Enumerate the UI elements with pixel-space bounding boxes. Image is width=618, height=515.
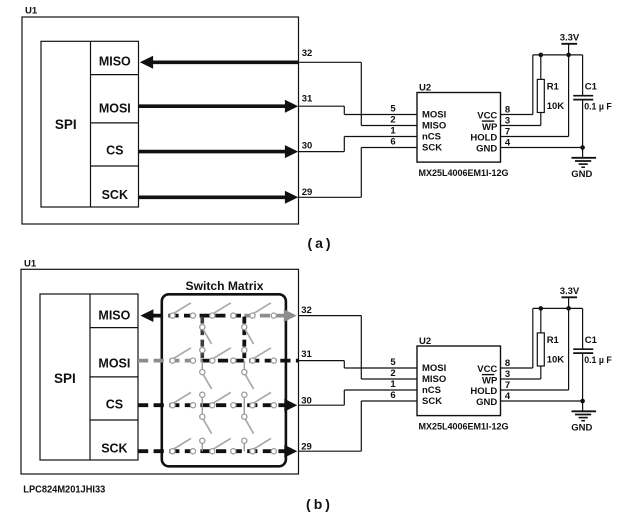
svg-text:SPI: SPI (54, 371, 76, 386)
SPI block inside U1 (a) (41, 41, 139, 207)
svg-text:U2: U2 (419, 336, 431, 347)
wire net 30 to U2 nCS pin1 (b) (299, 390, 345, 405)
wire net 29 to U2 SCK pin6 (a) (299, 148, 362, 198)
switch contacts row1 (b) (170, 313, 277, 318)
wire WP pin3 to R1 bottom (a) (501, 113, 541, 126)
svg-text:MOSI: MOSI (422, 110, 446, 121)
svg-text:8: 8 (505, 104, 510, 115)
switch lever row4 sw2 (b) (214, 438, 231, 449)
svg-text:VCC: VCC (477, 364, 497, 375)
power 3.3V symbol (b) (560, 286, 580, 308)
wire 3.3V rail (a) (533, 54, 583, 56)
switch lever vertical col1 rows2-3 (b) (203, 375, 211, 390)
svg-text:3: 3 (505, 115, 510, 126)
U2 right pin labels (a) (470, 110, 498, 154)
svg-text:MISO: MISO (99, 55, 131, 69)
svg-text:WP: WP (482, 122, 498, 133)
svg-text:5: 5 (390, 357, 396, 368)
switch contacts row3 (b) (170, 403, 277, 408)
U2 left pin numbers 5 2 1 6 (b) (390, 357, 396, 401)
wire VCC pin8 to rail (a) (501, 55, 533, 115)
wire HOLD pin7 to rail (b) (501, 308, 569, 390)
svg-text:7: 7 (505, 380, 510, 391)
resistor R1 (b) (537, 308, 564, 366)
svg-text:32: 32 (301, 305, 312, 316)
svg-text:R1: R1 (547, 335, 560, 346)
svg-text:6: 6 (390, 390, 395, 401)
svg-text:CS: CS (106, 143, 123, 157)
switch contacts row4 (b) (170, 449, 277, 454)
svg-text:SCK: SCK (101, 442, 127, 456)
wire net 32 to U2 MISO pin2 (b) (299, 316, 362, 379)
switch contacts vertical col1 rows2-3 (b) (200, 370, 205, 398)
switch matrix box (b) (162, 279, 286, 466)
U2 right pin labels (b) (470, 364, 498, 408)
wire MOSI row dashed black to edge (b) (202, 359, 298, 363)
node junction R1-rail (a) (539, 53, 544, 58)
svg-text:CS: CS (106, 398, 123, 412)
svg-text:MISO: MISO (98, 308, 130, 322)
svg-text:SCK: SCK (422, 143, 442, 154)
U2 left pin labels (a) (422, 110, 446, 154)
node junction 3.3V-rail (b) (566, 306, 571, 311)
svg-text:nCS: nCS (422, 132, 441, 143)
wire MISO row dashed black (b) (140, 309, 244, 322)
svg-text:(a): (a) (307, 235, 333, 251)
svg-text:10K: 10K (547, 101, 565, 112)
switch lever row4 sw1 (b) (174, 438, 191, 449)
svg-text:3: 3 (505, 369, 510, 380)
U2 left pin stubs (b) (344, 368, 417, 401)
capacitor C1 (b) (573, 308, 612, 401)
svg-text:29: 29 (302, 187, 313, 198)
switch lever row1 sw3 (b) (254, 303, 271, 314)
SPI block inside U1 (b) (40, 294, 138, 460)
SPI pin labels (a) (99, 55, 131, 202)
svg-text:1: 1 (390, 126, 396, 137)
switch contacts vertical col2 rows1-2 (b) (242, 325, 247, 353)
wire MISO thick arrow into SPI (a) (140, 56, 299, 69)
switch lever vertical col1 rows1-2 (b) (203, 330, 211, 345)
wire net 31 to U2 MOSI pin5 (a) (299, 106, 345, 114)
svg-text:VCC: VCC (477, 110, 497, 121)
svg-text:GND: GND (476, 397, 497, 408)
wire WP pin3 to R1 bottom (b) (501, 366, 541, 379)
switch contacts vertical col1 rows1-2 (b) (200, 325, 205, 353)
switch contacts vertical col2 rows3-4 (b) (242, 414, 247, 443)
switch contacts vertical col1 rows3-4 (b) (200, 414, 205, 443)
svg-text:4: 4 (505, 391, 511, 402)
svg-text:SCK: SCK (422, 396, 442, 407)
wire vertical cross-connect col2 rows1-2 black dashed (b) (242, 317, 246, 360)
svg-text:LPC824M201JHI33: LPC824M201JHI33 (23, 484, 105, 496)
power 3.3V symbol (a) (560, 33, 580, 55)
svg-text:MOSI: MOSI (99, 101, 131, 115)
svg-text:U2: U2 (419, 83, 431, 94)
svg-text:U1: U1 (24, 258, 37, 269)
wire SCK row dashed black + arrow (b) (138, 445, 297, 458)
U2 left pin numbers 5 2 1 6 (a) (390, 104, 396, 148)
resistor R1 (a) (537, 55, 564, 113)
svg-text:3.3V: 3.3V (560, 33, 580, 44)
svg-text:GND: GND (476, 143, 497, 154)
svg-text:7: 7 (505, 126, 510, 137)
wire MOSI row dashed gray (b) (138, 359, 202, 363)
wire MOSI thick arrow out (a) (139, 100, 299, 113)
switch contacts row2 (b) (170, 358, 277, 363)
wire GND pin4 net (a) (501, 148, 583, 158)
wire net 32 to U2 MISO pin2 (a) (299, 62, 362, 125)
svg-text:C1: C1 (585, 82, 598, 93)
switch lever row4 sw3 (b) (254, 438, 271, 449)
svg-text:C1: C1 (585, 335, 598, 346)
svg-text:U1: U1 (25, 6, 38, 17)
svg-text:nCS: nCS (422, 385, 441, 396)
switch lever row3 sw1 (b) (174, 392, 191, 403)
svg-text:2: 2 (390, 368, 395, 379)
svg-text:SCK: SCK (102, 188, 128, 202)
switch lever row2 sw3 (b) (254, 348, 271, 359)
node junction pin4-C1-GND (b) (580, 399, 585, 404)
switch vertical col1 rows3-4 stems (b) (201, 405, 203, 451)
wire CS thick arrow out (a) (139, 145, 299, 158)
wire VCC pin8 to rail (b) (501, 308, 533, 368)
switch lever row2 sw1 (b) (174, 348, 191, 359)
svg-text:HOLD: HOLD (470, 386, 497, 397)
switch contacts vertical col2 rows2-3 (b) (242, 370, 247, 398)
svg-text:6: 6 (390, 137, 395, 148)
wire vertical cross-connect col1 rows1-2 dark dashed (b) (201, 317, 205, 360)
node junction pin4-C1-GND (a) (580, 145, 585, 150)
svg-text:31: 31 (302, 94, 313, 105)
svg-text:MX25L4006EM1I-12G: MX25L4006EM1I-12G (419, 168, 509, 178)
ground symbol (b) (571, 411, 596, 433)
switch vertical col1 rows2-3 stems (b) (201, 361, 203, 406)
wire CS row dashed black + arrow (b) (138, 399, 297, 412)
svg-text:2: 2 (390, 115, 395, 126)
svg-text:MISO: MISO (422, 121, 446, 132)
svg-text:32: 32 (302, 48, 313, 59)
svg-text:MOSI: MOSI (422, 363, 446, 374)
svg-text:4: 4 (505, 137, 511, 148)
chip U1 outline (b) (21, 258, 299, 474)
svg-text:1: 1 (390, 379, 396, 390)
wire 3.3V rail (b) (533, 307, 583, 309)
capacitor C1 (a) (573, 55, 612, 148)
svg-text:MISO: MISO (422, 374, 446, 385)
svg-text:31: 31 (301, 349, 312, 360)
op IC U2 flash MX25L4006 (a) (417, 83, 501, 163)
switch lever row1 sw1 (b) (174, 303, 191, 314)
svg-text:WP: WP (482, 375, 498, 386)
wire SCK thick arrow out (a) (139, 191, 299, 204)
switch lever row3 sw2 (b) (214, 392, 231, 403)
chip U1 outline (a) (22, 6, 299, 225)
svg-text:(b): (b) (306, 496, 333, 512)
node junction 3.3V-rail (a) (566, 53, 571, 58)
svg-text:10K: 10K (547, 355, 565, 366)
wire net 29 to U2 SCK pin6 (b) (299, 401, 362, 451)
switch lever vertical col2 rows3-4 (b) (245, 419, 253, 434)
wire net 30 to U2 nCS pin1 (a) (299, 137, 345, 152)
svg-text:SPI: SPI (55, 117, 77, 132)
svg-text:0.1 µ F: 0.1 µ F (584, 355, 612, 365)
switch vertical col2 rows2-3 stems (b) (243, 361, 245, 406)
node junction R1-rail (b) (539, 306, 544, 311)
op IC U2 flash MX25L4006 (b) (417, 336, 501, 416)
svg-text:5: 5 (390, 104, 396, 115)
svg-text:30: 30 (302, 140, 313, 151)
ground symbol (a) (571, 158, 596, 180)
switch vertical col2 rows3-4 stems (b) (243, 405, 245, 451)
switch lever row1 sw2 (b) (214, 303, 231, 314)
svg-text:Switch Matrix: Switch Matrix (186, 279, 264, 293)
switch lever row2 sw2 (b) (214, 348, 231, 359)
svg-text:HOLD: HOLD (470, 132, 497, 143)
switch lever vertical col2 rows1-2 (b) (245, 330, 253, 345)
U2 right pin numbers 8 3 7 4 (a) (505, 104, 511, 148)
svg-text:R1: R1 (547, 82, 560, 93)
switch lever vertical col2 rows2-3 (b) (245, 375, 253, 390)
switch lever row3 sw3 (b) (254, 392, 271, 403)
U2 left pin labels (b) (422, 363, 446, 407)
wire MISO row dashed gray + arrow to pin32 (b) (244, 309, 296, 322)
SPI pin labels (b) (98, 308, 130, 455)
svg-text:GND: GND (571, 422, 592, 433)
svg-text:0.1 µ F: 0.1 µ F (584, 101, 612, 111)
svg-text:8: 8 (505, 358, 510, 369)
switch lever vertical col1 rows3-4 (b) (203, 419, 211, 434)
wire net 31 to U2 MOSI pin5 (b) (299, 361, 345, 368)
svg-text:GND: GND (571, 169, 592, 180)
svg-text:3.3V: 3.3V (560, 286, 580, 297)
svg-text:MOSI: MOSI (98, 356, 130, 370)
wire HOLD pin7 to rail (a) (501, 55, 569, 137)
U2 left pin stubs (a) (344, 115, 417, 148)
wire GND pin4 net (b) (501, 401, 583, 411)
svg-text:MX25L4006EM1I-12G: MX25L4006EM1I-12G (419, 422, 509, 432)
U2 right pin numbers 8 3 7 4 (b) (505, 358, 511, 402)
